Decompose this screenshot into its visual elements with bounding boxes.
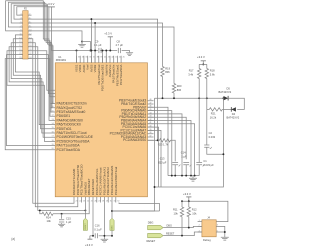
junction pin6 caprail xyxy=(94,50,96,52)
svg-text:40: 40 xyxy=(104,57,106,59)
svg-text:41: 41 xyxy=(108,57,110,59)
wire connector pin to U1 pin row 4 xyxy=(6,1,51,121)
wire connector pin to U1 pin row 0 xyxy=(17,7,53,104)
svg-text:+3.3 V: +3.3 V xyxy=(104,32,112,36)
svg-text:BAT42XV2: BAT42XV2 xyxy=(219,90,232,94)
svg-text:RESET: RESET xyxy=(166,233,175,236)
svg-text:26: 26 xyxy=(95,200,97,202)
resistor R20 xyxy=(172,84,175,94)
ground top middle xyxy=(78,44,86,47)
wire C15 bottom lead xyxy=(61,223,63,224)
svg-text:16: 16 xyxy=(29,41,31,43)
svg-text:12: 12 xyxy=(52,115,54,117)
wire R11 top lead xyxy=(181,201,183,207)
svg-text:22: 22 xyxy=(79,200,81,202)
svg-text:Debug: Debug xyxy=(203,238,211,242)
svg-text:5.6k: 5.6k xyxy=(210,72,216,76)
resistor R19 xyxy=(161,67,164,77)
capacitor C16 xyxy=(95,233,97,238)
resistor R21 xyxy=(209,108,222,111)
svg-text:16.2k: 16.2k xyxy=(210,115,217,119)
ground C15 xyxy=(58,224,65,227)
wire +3.3V stem mid xyxy=(202,61,204,65)
wire C16 left xyxy=(90,235,94,237)
resistor R18 xyxy=(205,69,208,79)
wire D5 cathode to D4 anode xyxy=(228,98,244,109)
svg-text:1 µF: 1 µF xyxy=(181,154,187,158)
svg-text:33: 33 xyxy=(78,57,80,59)
junction pin5 top rail xyxy=(90,18,92,20)
junction debug rail xyxy=(188,200,190,202)
svg-text:13: 13 xyxy=(52,119,54,121)
svg-text:C14: C14 xyxy=(181,151,186,155)
svg-text:(a): (a) xyxy=(11,237,15,241)
J4 pin stubs xyxy=(198,222,221,232)
wire connector pin 8 to reset net xyxy=(28,47,85,211)
wire R17 bottom lead xyxy=(198,79,200,99)
wire R18 to R21 xyxy=(207,108,210,110)
wire U1 reset pin down to flag xyxy=(84,203,86,219)
wire cap rail to ground xyxy=(122,51,130,53)
svg-text:R24: R24 xyxy=(46,215,51,219)
wire R12 top lead xyxy=(188,201,190,207)
net flag DBG vertical xyxy=(110,218,114,230)
wire connector pin 9 to U1 left stub xyxy=(28,51,55,91)
svg-text:4.7 µF: 4.7 µF xyxy=(116,43,124,47)
svg-text:37: 37 xyxy=(149,135,151,137)
svg-text:3.4k: 3.4k xyxy=(188,72,194,76)
svg-text:R19: R19 xyxy=(165,67,170,71)
wire debug pin 5 to ground xyxy=(221,231,225,233)
wire +3.3V rail to debug pin xyxy=(182,201,228,221)
wire U1 top pin 6 up to rail xyxy=(94,23,96,63)
svg-text:15: 15 xyxy=(19,41,21,43)
resistor R17 xyxy=(198,69,201,79)
junction reset net xyxy=(84,209,86,211)
wire C13 bottom lead xyxy=(174,165,176,176)
svg-text:19: 19 xyxy=(52,144,54,146)
wire R20 bottom xyxy=(173,93,175,98)
svg-text:25: 25 xyxy=(91,200,93,202)
wire ground tap stem xyxy=(81,42,83,45)
svg-text:+3.3 V: +3.3 V xyxy=(197,55,205,59)
wire comparator node line xyxy=(155,97,224,99)
svg-text:46: 46 xyxy=(149,106,151,108)
junction R17 R18 top xyxy=(202,63,204,65)
svg-text:17: 17 xyxy=(19,45,21,47)
wire under U1 upper xyxy=(119,203,160,212)
capacitor C9 xyxy=(99,48,101,53)
svg-text:BAT42XV2: BAT42XV2 xyxy=(227,116,240,120)
wire connector pin to U1 pin row 2 xyxy=(11,4,51,112)
capacitor C8 xyxy=(118,48,120,53)
svg-text:5: 5 xyxy=(217,230,218,232)
svg-text:Z8F3281: Z8F3281 xyxy=(56,58,67,62)
svg-text:12: 12 xyxy=(29,33,31,35)
wire R24 to U1 pin xyxy=(53,203,89,214)
ground top right xyxy=(126,53,133,56)
wire ground tap jog to cap rail xyxy=(82,42,90,51)
svg-text:7: 7 xyxy=(20,26,21,28)
capacitor C15 xyxy=(59,220,64,222)
svg-text:0.033: 0.033 xyxy=(209,135,216,139)
power +3.3V debug xyxy=(186,196,191,198)
junction R19 node xyxy=(162,97,164,99)
wire DBG flag bottom xyxy=(111,230,113,235)
wire U1 top pin 5 up to rail xyxy=(90,19,92,63)
wire U1 top pin 1 up to cap rail xyxy=(76,51,78,63)
svg-text:14: 14 xyxy=(52,123,54,125)
svg-text:38: 38 xyxy=(149,132,151,134)
svg-text:28: 28 xyxy=(102,200,104,202)
svg-text:D4: D4 xyxy=(232,112,236,116)
junction R17 node xyxy=(198,97,200,99)
wire R21 to D4 xyxy=(222,108,231,110)
U1 right pin stubs xyxy=(148,101,154,141)
svg-text:10: 10 xyxy=(52,106,54,108)
svg-text:43: 43 xyxy=(149,116,151,118)
svg-text:39: 39 xyxy=(149,129,151,131)
svg-text:RESET: RESET xyxy=(147,239,156,243)
svg-text:38: 38 xyxy=(97,57,99,59)
junction gnd rail 1 xyxy=(171,175,173,177)
svg-text:22: 22 xyxy=(29,53,31,55)
power +3.3V bottom xyxy=(88,238,93,240)
svg-text:37: 37 xyxy=(93,57,95,59)
svg-text:14: 14 xyxy=(29,37,31,39)
svg-text:1: 1 xyxy=(199,220,200,222)
svg-text:41: 41 xyxy=(149,122,151,124)
svg-text:+3.3 V: +3.3 V xyxy=(183,192,191,196)
svg-text:C16: C16 xyxy=(95,224,100,228)
capacitor C2 xyxy=(204,145,209,147)
connector P2 xyxy=(23,11,28,59)
svg-text:20: 20 xyxy=(29,49,31,51)
wire U1 right pin down 2 xyxy=(148,111,172,176)
junction gnd rail 4 xyxy=(185,175,187,177)
svg-text:15: 15 xyxy=(52,127,54,129)
wire R19 bottom xyxy=(162,77,164,99)
svg-text:1: 1 xyxy=(20,14,21,16)
junction pin5 caprail xyxy=(90,50,92,52)
svg-text:DBG: DBG xyxy=(148,220,154,224)
wire U1 right pin down 4 xyxy=(148,121,192,176)
wire DBG to debug pin 2 xyxy=(163,226,202,227)
svg-text:32: 32 xyxy=(117,200,119,202)
svg-text:23: 23 xyxy=(83,200,85,202)
connector P2 left pin stubs xyxy=(20,15,23,59)
svg-text:2: 2 xyxy=(29,14,30,16)
wire U1 DBG pin down to flag xyxy=(111,203,113,219)
wire R18 top lead xyxy=(206,64,208,68)
connector P2 right pin stubs xyxy=(28,15,31,59)
svg-text:43: 43 xyxy=(115,57,117,59)
junction pin8 caprail xyxy=(102,50,104,52)
svg-text:21: 21 xyxy=(76,200,78,202)
wire connector pin far-left to U1 row 10 xyxy=(7,55,51,146)
svg-text:9: 9 xyxy=(52,102,53,104)
wire U1 right pin down 3 xyxy=(148,114,183,176)
svg-text:48: 48 xyxy=(149,99,151,101)
svg-text:+3.3 V: +3.3 V xyxy=(47,2,55,6)
net flag RESET vertical xyxy=(83,218,87,230)
junction gnd rail 3 xyxy=(181,175,183,177)
wire U1 VDD pin down to rail xyxy=(92,203,94,236)
svg-text:C8: C8 xyxy=(117,40,121,44)
svg-text:40: 40 xyxy=(149,126,151,128)
svg-text:24: 24 xyxy=(87,200,89,202)
diode D4 xyxy=(231,107,236,111)
junction VDD rail xyxy=(92,235,94,237)
capacitor C1 xyxy=(196,163,202,165)
svg-text:5: 5 xyxy=(20,22,21,24)
power +3.3V top left xyxy=(48,6,55,8)
junction R23 rail feed xyxy=(157,139,159,141)
wire U1 right pin down 6 xyxy=(148,127,159,187)
wire +3.3V stem down to cap rail xyxy=(52,7,98,51)
svg-text:45: 45 xyxy=(149,109,151,111)
junction DBG rail xyxy=(111,235,113,237)
wire U1 pin to R23 xyxy=(148,139,160,141)
junction C15 tap xyxy=(61,213,63,215)
svg-text:44: 44 xyxy=(119,57,121,59)
wire connector pin to U1 pin row 1 xyxy=(14,5,52,108)
microcontroller U1 xyxy=(55,63,147,197)
junction R11 RESET xyxy=(181,235,183,237)
junction jog cap rail xyxy=(89,50,91,52)
wire +3.3V debug stem xyxy=(188,197,190,201)
svg-text:20: 20 xyxy=(52,148,54,150)
junction first top pin xyxy=(76,50,78,52)
resistor R12 xyxy=(187,207,190,217)
svg-text:18: 18 xyxy=(52,140,54,142)
svg-text:+3.3 V: +3.3 V xyxy=(85,243,93,247)
svg-text:1 µF: 1 µF xyxy=(66,220,72,224)
svg-text:10: 10 xyxy=(29,29,31,31)
junction debug ground xyxy=(224,231,226,233)
wire U1 right pin down 1 xyxy=(148,107,169,175)
junction R12 DBG xyxy=(188,227,190,229)
wire U1 right pin to C14 xyxy=(148,117,187,159)
wire C1 top lead xyxy=(198,98,200,162)
junction R18 node xyxy=(206,97,208,99)
svg-text:9: 9 xyxy=(20,29,21,31)
svg-text:PC2/ANA3/SS0/T2out: PC2/ANA3/SS0/T2out xyxy=(114,167,118,196)
svg-text:6: 6 xyxy=(29,22,30,24)
net flag RESET arrow xyxy=(148,233,164,237)
svg-text:4: 4 xyxy=(29,18,30,20)
wire ground stem xyxy=(192,176,194,179)
wire rail to R23 xyxy=(28,19,158,140)
svg-text:C15: C15 xyxy=(66,216,71,220)
svg-text:RESET: RESET xyxy=(85,222,87,229)
wire box to R24 xyxy=(40,210,42,213)
svg-text:4: 4 xyxy=(199,230,200,232)
svg-text:24: 24 xyxy=(29,57,31,59)
junction D5 anode node xyxy=(223,97,225,99)
svg-text:PC2/ANA3/SS0: PC2/ANA3/SS0 xyxy=(123,138,146,142)
svg-text:16: 16 xyxy=(52,131,54,133)
wire C2 top lead xyxy=(206,109,208,145)
junction pin9 caprail xyxy=(105,50,107,52)
svg-text:R23 1.7k: R23 1.7k xyxy=(158,142,169,146)
junction DBG line xyxy=(111,210,113,212)
U1 bottom pin stubs xyxy=(74,197,116,203)
resistor R11 xyxy=(180,207,183,217)
svg-text:DBG: DBG xyxy=(112,225,114,230)
svg-text:DBG: DBG xyxy=(167,225,172,228)
wire C15 top lead xyxy=(61,214,63,219)
resistor R23 xyxy=(160,139,171,142)
svg-text:3: 3 xyxy=(20,18,21,20)
svg-text:R20: R20 xyxy=(177,84,182,88)
net flag DBG arrow xyxy=(148,225,164,229)
resistor R24 xyxy=(42,212,53,215)
wire C16 right xyxy=(99,235,112,237)
wire R17 R18 top tee xyxy=(199,63,207,65)
svg-text:10k: 10k xyxy=(174,211,179,215)
wire D5 anode down and left xyxy=(155,98,224,187)
wire C2 bottom to vertical xyxy=(207,147,224,154)
svg-text:17: 17 xyxy=(52,136,54,138)
wire connector pin to U1 pin row 6 xyxy=(13,39,50,129)
U1 left pin stubs xyxy=(51,104,56,150)
junction C2 vertical xyxy=(222,153,224,155)
svg-text:3: 3 xyxy=(217,225,218,227)
wire cap rail mid xyxy=(100,50,117,52)
junction gnd rail 6 xyxy=(194,175,196,177)
svg-text:47: 47 xyxy=(149,102,151,104)
svg-text:29: 29 xyxy=(106,200,108,202)
junction pin6 top rail xyxy=(94,22,96,24)
svg-text:10k: 10k xyxy=(192,211,197,215)
svg-text:18: 18 xyxy=(29,45,31,47)
svg-text:806: 806 xyxy=(177,88,182,92)
svg-text:R21: R21 xyxy=(211,112,216,116)
wire U1 top pin 9 up to cap rail xyxy=(105,51,107,63)
svg-text:C1: C1 xyxy=(203,159,207,163)
svg-text:C13: C13 xyxy=(160,157,165,161)
power +3.3V top xyxy=(108,36,113,38)
ground bottom middle xyxy=(101,239,109,242)
svg-text:31: 31 xyxy=(114,200,116,202)
wire connector pin 6 around bottom to U1 bottom pin xyxy=(28,39,74,204)
svg-text:820 µF: 820 µF xyxy=(158,160,167,164)
svg-text:C9: C9 xyxy=(95,40,99,44)
svg-text:R17: R17 xyxy=(189,69,194,73)
svg-text:11: 11 xyxy=(20,33,22,35)
debug connector J4 xyxy=(202,220,216,237)
wire connector pin 11 to U1 left stub xyxy=(28,59,55,97)
wire rail to R19 xyxy=(28,23,162,67)
svg-text:34: 34 xyxy=(82,57,84,59)
wire rail to top ground tap xyxy=(28,31,82,42)
wire connector pin to U1 pin row 8 xyxy=(9,47,50,138)
svg-text:0.033 µF: 0.033 µF xyxy=(203,163,214,167)
wire R23 right to C13 xyxy=(171,140,176,161)
wire R12 bottom lead xyxy=(188,217,190,228)
wire +3.3V stem top xyxy=(109,37,111,51)
svg-text:42: 42 xyxy=(149,119,151,121)
wire C14 bottom lead xyxy=(185,165,187,176)
wire +3.3V bottom stem xyxy=(89,236,91,239)
wire connector pin 7 around bottom to U1 bottom pin xyxy=(28,43,78,207)
wire connector pin to U1 pin row 9 xyxy=(7,51,51,142)
svg-text:44: 44 xyxy=(149,112,151,114)
svg-text:0.1 µF: 0.1 µF xyxy=(94,227,102,231)
wire RESET to debug pin 4 xyxy=(163,232,202,236)
svg-text:10k: 10k xyxy=(47,219,52,223)
svg-text:45: 45 xyxy=(123,57,125,59)
svg-text:8: 8 xyxy=(29,26,30,28)
svg-text:2: 2 xyxy=(199,225,200,227)
svg-text:21: 21 xyxy=(19,53,21,55)
junction long line xyxy=(154,186,156,188)
svg-text:R12: R12 xyxy=(192,208,197,212)
wire U1 top pin 8 up to cap rail xyxy=(102,51,104,63)
wire R17 top lead xyxy=(198,64,200,68)
junction +3.3V rail xyxy=(109,50,111,52)
wire U1 VSS pin down to ground xyxy=(103,203,105,240)
svg-text:PC3/T0out/SDA: PC3/T0out/SDA xyxy=(57,148,81,152)
wire R18 bottom lead xyxy=(206,79,208,110)
svg-text:PC3/T3out/SDA: PC3/T3out/SDA xyxy=(119,65,123,86)
U1 top pin stubs xyxy=(77,56,122,63)
svg-text:36: 36 xyxy=(89,57,91,59)
svg-text:42: 42 xyxy=(112,57,114,59)
wire R11 bottom lead xyxy=(181,217,183,236)
svg-text:27: 27 xyxy=(98,200,100,202)
svg-text:D5: D5 xyxy=(227,87,231,91)
wire C1 bottom lead xyxy=(198,165,200,176)
svg-text:30: 30 xyxy=(110,200,112,202)
svg-text:11: 11 xyxy=(52,110,54,112)
junction R11 top xyxy=(181,200,183,202)
wire U1 right pin down 7 xyxy=(148,130,162,187)
svg-text:R18: R18 xyxy=(210,69,215,73)
wire U1 right pin down 5 xyxy=(148,124,195,176)
ground caps xyxy=(189,178,197,181)
diode D5 xyxy=(224,96,229,100)
wire connector pin to U1 pin row 5 xyxy=(15,35,50,125)
svg-text:R11: R11 xyxy=(173,208,178,212)
wire bottom line right segment xyxy=(112,210,160,212)
ground debug xyxy=(221,237,229,240)
svg-text:806: 806 xyxy=(165,70,170,74)
capacitor C13 xyxy=(172,163,178,165)
svg-text:19: 19 xyxy=(19,49,21,51)
svg-text:39: 39 xyxy=(100,57,102,59)
wire connector pin 10 to U1 left stub xyxy=(28,55,55,94)
svg-text:35: 35 xyxy=(85,57,87,59)
wire connector pin far-left to U1 row 11 xyxy=(5,59,50,150)
wire connector pin to U1 pin row 7 xyxy=(11,43,50,133)
wire long vertical down to bottom xyxy=(112,98,155,211)
svg-text:23: 23 xyxy=(19,57,21,59)
junction ground tap xyxy=(81,41,83,43)
junction R20 node xyxy=(173,97,175,99)
wire ground rail xyxy=(168,175,199,177)
power +3.3V mid xyxy=(201,60,206,62)
junction gnd rail 5 xyxy=(190,175,192,177)
svg-text:13: 13 xyxy=(19,37,21,39)
wire debug pin 3 to ground xyxy=(221,226,225,237)
svg-text:C2: C2 xyxy=(209,131,213,135)
junction VSS rail xyxy=(103,235,105,237)
junction gnd rail 2 xyxy=(174,175,176,177)
wire connector pin to U1 pin row 3 xyxy=(8,2,50,116)
capacitor C14 xyxy=(183,163,189,165)
